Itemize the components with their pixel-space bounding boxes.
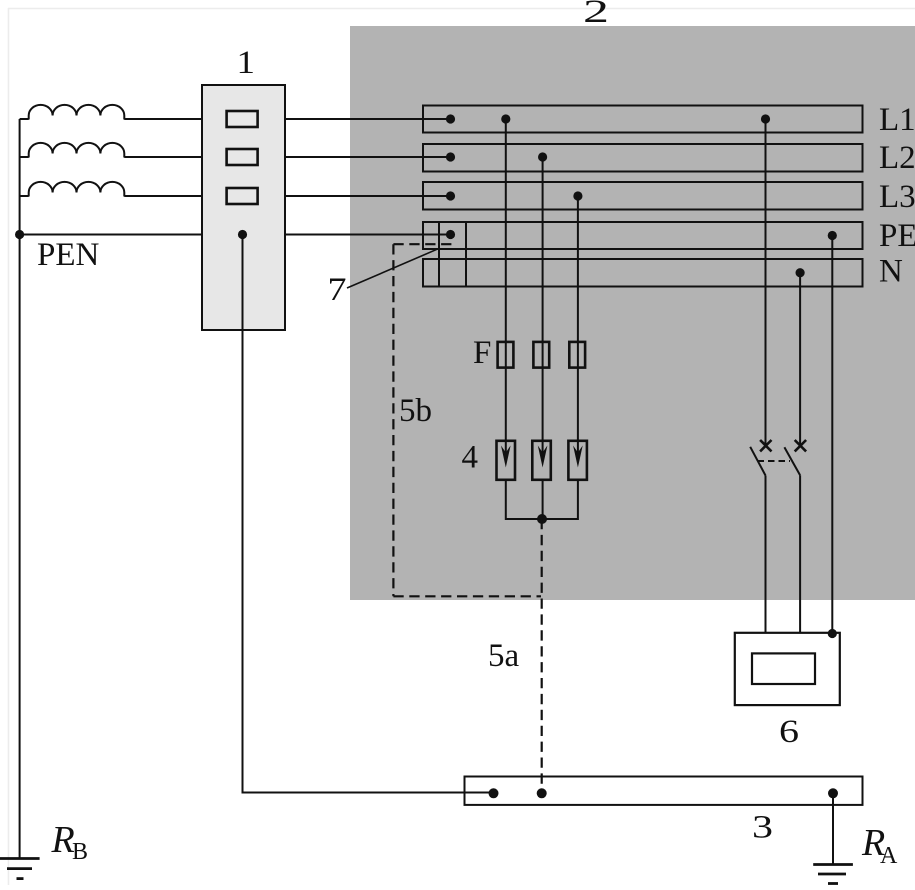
svg-text:3: 3 bbox=[752, 810, 773, 846]
surge arrester 4 phase L1 bbox=[497, 441, 516, 480]
link 7: PE-N bridge bar right line bbox=[465, 222, 467, 287]
busbar N bbox=[423, 259, 863, 287]
node: L1 tap to switch 6 bbox=[761, 114, 770, 123]
wire: L3 line to busbar bbox=[124, 195, 450, 197]
wire: L2 line to busbar bbox=[124, 156, 450, 158]
node: PEN dot on PE busbar bbox=[446, 230, 455, 239]
wire: PEN conductor to PE busbar bbox=[20, 234, 451, 236]
wire: N drop to switch bbox=[799, 273, 801, 446]
node: PEN junction at left conductor bbox=[15, 230, 24, 239]
node: L1 tap to group 4 bbox=[501, 114, 510, 123]
wire: PE drop to appliance 6 bbox=[831, 236, 833, 634]
dashed box 5b top edge bbox=[393, 243, 451, 245]
svg-text:PEN: PEN bbox=[37, 237, 100, 273]
node: arrester common junction bbox=[537, 514, 547, 524]
node: L2 tap to group 4 bbox=[538, 152, 547, 161]
node: L2 feed dot bbox=[446, 152, 455, 161]
wire: phase L1 drop to surge arresters bbox=[505, 119, 507, 441]
svg-text:6: 6 bbox=[779, 714, 799, 750]
wire: arrester L1 output to common point bbox=[506, 480, 542, 519]
node: earth electrode connection on bar 3 bbox=[828, 788, 838, 798]
switch blade L1 bbox=[750, 447, 765, 476]
appliance 6 inner element bbox=[752, 653, 815, 684]
wire: switch N to appliance 6 bbox=[799, 475, 801, 653]
svg-text:PE: PE bbox=[879, 218, 915, 254]
dashed box 5b left edge bbox=[392, 244, 394, 596]
appliance 6 outer case bbox=[735, 633, 840, 705]
node: L3 feed dot bbox=[446, 191, 455, 200]
svg-text:4: 4 bbox=[462, 440, 479, 476]
svg-text:5a: 5a bbox=[488, 638, 520, 674]
ground symbol RA bbox=[813, 865, 853, 884]
fuse-switch unit 1 (cabinet) bbox=[202, 85, 285, 330]
switch blade N bbox=[784, 447, 800, 475]
link 7: PE-N bridge bar left line bbox=[438, 222, 440, 287]
wire: left PEN vertical conductor bbox=[19, 119, 21, 858]
fuse link in unit 1 phase L3 bbox=[227, 188, 258, 204]
leader line for label 7 bbox=[347, 249, 437, 288]
fuse F phase L2 bbox=[533, 342, 549, 368]
node: 5a connection on bar 3 bbox=[537, 788, 547, 798]
switch contact x mark N bbox=[795, 440, 806, 451]
node: L3 tap to group 4 bbox=[573, 191, 582, 200]
node: PEN junction inside unit 1 bbox=[238, 230, 247, 239]
wire: L3 line from winding to busbar bbox=[20, 195, 29, 197]
node: PE connection on appliance case bbox=[828, 629, 837, 638]
node: PEN connection on bar 3 bbox=[489, 788, 499, 798]
fuse F phase L1 bbox=[498, 342, 514, 368]
wire: L2 line from winding to busbar bbox=[20, 156, 29, 158]
wire: L1 line to busbar bbox=[124, 118, 450, 120]
svg-text:7: 7 bbox=[328, 272, 347, 308]
svg-text:A: A bbox=[880, 843, 898, 869]
fuse link in unit 1 phase L2 bbox=[227, 149, 258, 165]
fuse link in unit 1 phase L1 bbox=[227, 111, 258, 127]
svg-text:1: 1 bbox=[237, 45, 256, 81]
arrow in arrester L1 bbox=[505, 441, 507, 460]
wire: switch L1 to appliance 6 bbox=[765, 476, 767, 654]
distribution board panel 2 (gray background) bbox=[350, 26, 915, 600]
faint page edge top bbox=[8, 8, 915, 10]
busbar L2 bbox=[423, 144, 863, 172]
busbar L1 bbox=[423, 106, 863, 133]
dashed mechanical linkage of switch bbox=[758, 460, 791, 462]
svg-text:N: N bbox=[879, 254, 903, 290]
node: L1 feed dot bbox=[446, 114, 455, 123]
transformer winding L2 bbox=[29, 143, 125, 158]
fuse F phase L3 bbox=[569, 342, 585, 368]
earthing busbar 3 bbox=[465, 777, 863, 805]
surge arrester 4 phase L3 bbox=[568, 441, 587, 480]
wire: L1 line from winding to busbar bbox=[20, 118, 29, 120]
ground symbol RB bbox=[0, 859, 40, 879]
busbar L3 bbox=[423, 182, 863, 210]
wire: arrester L2 output to common point bbox=[542, 480, 544, 519]
svg-text:L3: L3 bbox=[879, 179, 915, 215]
svg-text:5b: 5b bbox=[399, 393, 432, 429]
wire: phase L3 drop to surge arresters bbox=[577, 196, 579, 441]
arrow in arrester L3 bbox=[577, 441, 579, 460]
svg-text:B: B bbox=[72, 839, 88, 865]
busbar PE bbox=[423, 222, 863, 249]
surge arrester 4 phase L2 bbox=[532, 441, 551, 480]
wire: PEN drop from unit 1 to earthing bar 3 bbox=[243, 235, 494, 793]
faint page edge left bbox=[8, 8, 10, 885]
dashed box 5b bottom edge bbox=[393, 595, 541, 597]
svg-text:F: F bbox=[473, 335, 491, 371]
wire: arrester L3 output to common point bbox=[542, 480, 578, 519]
wire: bar 3 to earth electrode RA bbox=[832, 793, 834, 864]
wire: phase L2 drop to surge arresters bbox=[542, 157, 544, 441]
node: PE tap to appliance 6 bbox=[828, 231, 837, 240]
arrow in arrester L2 bbox=[542, 441, 544, 460]
dashed conductor 5a bbox=[541, 519, 543, 793]
svg-text:L1: L1 bbox=[879, 102, 915, 138]
switch contact x mark L1 bbox=[760, 440, 771, 451]
wire: L1 drop to switch bbox=[765, 119, 767, 446]
svg-text:L2: L2 bbox=[879, 140, 915, 176]
transformer winding L1 bbox=[29, 105, 125, 120]
svg-text:2: 2 bbox=[583, 0, 609, 30]
transformer winding L3 bbox=[29, 182, 125, 197]
node: N tap to switch 6 bbox=[796, 268, 805, 277]
